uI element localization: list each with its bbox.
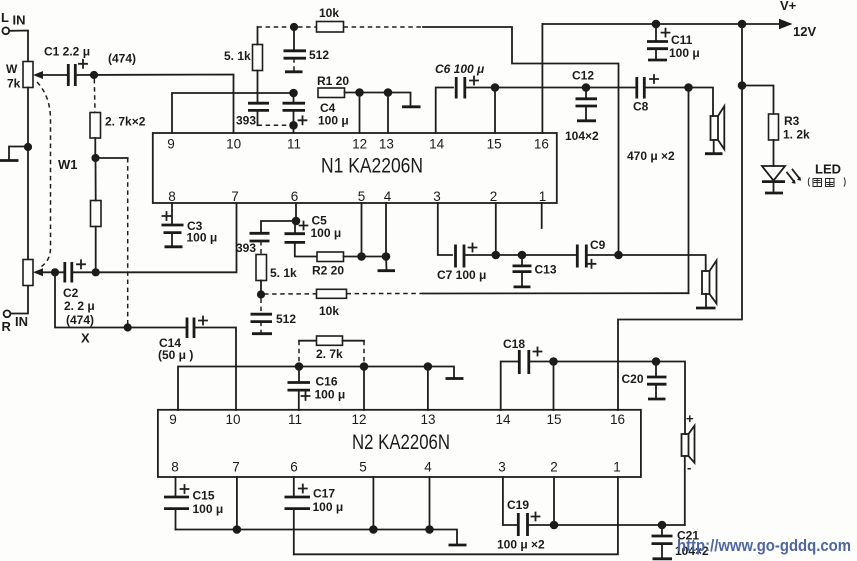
node ground tap bbox=[24, 143, 32, 151]
capacitor C1 2.2u bbox=[44, 45, 136, 87]
capacitor C5 100u bbox=[285, 214, 342, 257]
svg-text:5. 1k: 5. 1k bbox=[224, 49, 251, 63]
node pin 12 bbox=[355, 88, 364, 97]
svg-text:393: 393 bbox=[236, 241, 256, 255]
wire N1 pin 9 up and right (input bias net) bbox=[172, 93, 294, 133]
node C8 out bbox=[684, 83, 693, 92]
svg-text:LED: LED bbox=[815, 162, 841, 177]
capacitor C9 470u bbox=[577, 238, 605, 268]
svg-text:-: - bbox=[687, 460, 691, 475]
wire N2 pin 3 to C19 bbox=[503, 477, 517, 525]
capacitor C3 100u bbox=[162, 203, 218, 247]
svg-text:16: 16 bbox=[534, 137, 549, 152]
dashed C1 node to 2.7k bbox=[93, 79, 96, 113]
dashed 10k to solid feedback run bbox=[344, 26, 424, 28]
svg-text:C2: C2 bbox=[63, 286, 79, 300]
wire R IN to pot lower bbox=[10, 286, 28, 314]
potentiometer W (lower gang) bbox=[23, 260, 33, 286]
node C20 bbox=[652, 357, 661, 366]
svg-text:10k: 10k bbox=[319, 304, 339, 318]
svg-text:512: 512 bbox=[276, 312, 296, 326]
wire C7 to C9 bbox=[464, 254, 576, 256]
node pin 2 C19 bbox=[550, 521, 559, 530]
wire node right bbox=[96, 157, 128, 159]
svg-text:3: 3 bbox=[498, 460, 506, 475]
dashed 10k to solid run bbox=[347, 293, 424, 295]
svg-text:100 μ: 100 μ bbox=[315, 388, 346, 402]
svg-text:100 μ: 100 μ bbox=[193, 502, 224, 516]
dashed node to 10k lower bbox=[264, 293, 317, 295]
svg-text:1. 2k: 1. 2k bbox=[783, 128, 810, 142]
V+ rail bbox=[542, 23, 780, 25]
capacitor C2 2.2u bbox=[63, 260, 95, 327]
speaker C (N2 output) bbox=[682, 411, 695, 525]
wire X down and right to C14 bbox=[55, 272, 187, 327]
svg-text:100 μ ×2: 100 μ ×2 bbox=[497, 538, 545, 552]
node C2 out bbox=[92, 268, 100, 276]
ground (N1 input net) bbox=[402, 105, 421, 108]
ground N2 input net bbox=[446, 377, 464, 380]
svg-text:5: 5 bbox=[359, 460, 367, 475]
potentiometer W 7k (upper gang) bbox=[6, 62, 33, 91]
svg-text:8: 8 bbox=[171, 460, 179, 475]
node C9 out bbox=[614, 251, 623, 260]
svg-text:(474): (474) bbox=[108, 52, 136, 66]
resistor 2.7k x2 (upper) bbox=[90, 113, 146, 139]
speaker A (left channel) bbox=[705, 106, 724, 154]
capacitor C16 100u bbox=[288, 367, 346, 411]
svg-text:100 μ: 100 μ bbox=[187, 231, 218, 245]
svg-text:6: 6 bbox=[290, 460, 298, 475]
svg-text:IN: IN bbox=[13, 13, 26, 28]
capacitor C11 100u bbox=[647, 24, 700, 60]
node pin 7 rail bbox=[233, 525, 242, 534]
node after C1 bbox=[90, 71, 98, 79]
svg-text:C17: C17 bbox=[313, 487, 335, 501]
terminal L IN bbox=[1, 10, 26, 34]
svg-text:C19: C19 bbox=[507, 498, 529, 512]
wire N2 pin 14 to C18 bbox=[501, 362, 518, 411]
svg-text:C18: C18 bbox=[503, 337, 525, 351]
resistor 2.7k (N2) bbox=[299, 336, 364, 362]
svg-text:C8: C8 bbox=[633, 100, 649, 114]
LED (green) bbox=[762, 162, 845, 194]
speaker B (right channel of N1) bbox=[696, 261, 717, 309]
wire L IN to potentiometer W top bbox=[9, 31, 28, 62]
capacitor C13 bbox=[513, 255, 557, 287]
resistor 10k (upper feedback) bbox=[317, 6, 344, 32]
wire N1 pin 3 to C7 bbox=[438, 203, 452, 255]
wire N2 pin 15 riser bbox=[553, 362, 555, 411]
node pin 2 bbox=[492, 251, 501, 260]
svg-text:C11: C11 bbox=[671, 33, 693, 47]
node pin 13 bbox=[384, 88, 393, 97]
wire N2 pin 4 riser bbox=[429, 477, 431, 530]
svg-text:1: 1 bbox=[539, 189, 547, 204]
wire N2 bottom rail bbox=[176, 530, 458, 544]
node V+ branch bbox=[738, 20, 747, 29]
IC N1 KA2206N bbox=[153, 133, 557, 203]
capacitor C15 100u bbox=[164, 477, 223, 530]
wire 5.1k bottom lead to 393 bbox=[257, 71, 259, 103]
wire N1 pin 6 down bbox=[295, 203, 297, 221]
wire N2 pin 12 riser bbox=[363, 367, 365, 411]
wire V+ branch down to N2 pin 16 bbox=[618, 24, 742, 410]
svg-text:2. 7k×2: 2. 7k×2 bbox=[105, 115, 146, 129]
svg-text:N2 KA2206N: N2 KA2206N bbox=[352, 430, 450, 454]
wire feedback run to 10k (lower) bbox=[423, 292, 689, 294]
V+ arrowhead bbox=[779, 19, 793, 29]
capacitor C20 bbox=[622, 362, 667, 400]
wire pot W lower lead (between gangs) bbox=[27, 88, 29, 260]
node pin 6 bbox=[292, 217, 301, 226]
capacitor 393 (lower) bbox=[236, 233, 270, 255]
svg-text:2. 2 μ: 2. 2 μ bbox=[64, 299, 95, 313]
wire C9 to speaker B bbox=[586, 255, 705, 271]
node C21 bbox=[658, 521, 667, 530]
svg-text:V+: V+ bbox=[780, 0, 797, 13]
svg-text:5. 1k: 5. 1k bbox=[270, 266, 297, 280]
svg-text:512: 512 bbox=[309, 48, 329, 62]
node N2 pin 11 bbox=[295, 362, 304, 371]
IC N2 KA2206N bbox=[158, 410, 641, 477]
svg-text:6: 6 bbox=[291, 189, 299, 204]
capacitor C7 100u bbox=[437, 244, 486, 283]
wire N1 pin 14 to C6 bbox=[436, 88, 453, 134]
resistor 5.1k (lower) bbox=[256, 255, 297, 281]
wire wiper to C1 bbox=[42, 74, 68, 76]
wire C6 to C8 bbox=[465, 87, 636, 89]
svg-text:16: 16 bbox=[610, 412, 625, 427]
svg-text:7k: 7k bbox=[7, 77, 21, 91]
wire pin 5 riser bbox=[361, 203, 363, 257]
svg-text:2: 2 bbox=[490, 189, 498, 204]
svg-text:W: W bbox=[6, 62, 18, 76]
svg-text:13: 13 bbox=[420, 412, 435, 427]
resistor R1 20 bbox=[317, 74, 349, 98]
wire C19 to speaker C bottom bbox=[528, 524, 685, 526]
svg-text:15: 15 bbox=[546, 412, 561, 427]
capacitor C19 100u bbox=[497, 498, 545, 552]
node C11 bbox=[652, 20, 661, 29]
wire N2 pin 7 riser bbox=[236, 477, 238, 530]
capacitor 512 (upper) bbox=[284, 31, 330, 72]
node X wire / dashed junction bbox=[124, 323, 132, 331]
capacitor 393 (upper) bbox=[236, 103, 289, 127]
svg-text:C7 100 μ: C7 100 μ bbox=[437, 268, 486, 282]
wire pin 2 riser bbox=[495, 203, 497, 255]
svg-text:393: 393 bbox=[236, 114, 256, 128]
wire pin 12 riser bbox=[359, 93, 361, 134]
resistor 5.1k (upper) bbox=[224, 45, 263, 71]
svg-text:(50 μ ): (50 μ ) bbox=[158, 348, 193, 362]
wire C14 to N2 pin 10 bbox=[194, 328, 236, 411]
wire C1 to N1 pin 10 bbox=[75, 75, 233, 134]
wire feedback to C9 output node bbox=[423, 27, 619, 255]
svg-text:C1 2.2 μ: C1 2.2 μ bbox=[44, 45, 90, 59]
svg-text:4: 4 bbox=[384, 189, 392, 204]
node R3 branch bbox=[738, 81, 747, 90]
svg-text:(474): (474) bbox=[66, 313, 94, 327]
wire C17 bottom rail to N2 pin 1 bbox=[294, 477, 618, 554]
wire to R3 bbox=[742, 86, 774, 115]
svg-text:12: 12 bbox=[352, 137, 367, 152]
svg-text:2: 2 bbox=[550, 460, 558, 475]
node X tap bbox=[51, 268, 59, 276]
node top 10k net bbox=[290, 23, 298, 31]
svg-text:R: R bbox=[2, 319, 12, 334]
svg-text:15: 15 bbox=[487, 137, 502, 152]
svg-text:10: 10 bbox=[226, 137, 241, 152]
svg-text:11: 11 bbox=[288, 412, 302, 427]
svg-text:C16: C16 bbox=[316, 375, 338, 389]
wire pin 13 riser bbox=[387, 93, 389, 134]
wire N2 pin 5 riser bbox=[372, 477, 374, 530]
resistor R2 20 bbox=[312, 252, 344, 278]
svg-text:4: 4 bbox=[424, 460, 432, 475]
svg-text:100 μ: 100 μ bbox=[669, 46, 700, 60]
svg-text:10k: 10k bbox=[319, 6, 339, 20]
wire 5.1k to node bbox=[260, 281, 262, 292]
wire N2 pin 2 riser bbox=[553, 477, 555, 525]
node C6 out / pin 15 bbox=[491, 83, 500, 92]
node pin 5 rail bbox=[369, 525, 378, 534]
node N2 pin 12 bbox=[360, 362, 369, 371]
wire R1 to ground bbox=[345, 93, 411, 106]
terminal R IN bbox=[2, 310, 29, 334]
svg-text:14: 14 bbox=[429, 137, 445, 152]
capacitor C17 100u bbox=[285, 477, 344, 554]
svg-text:C20: C20 bbox=[622, 372, 644, 386]
svg-text:R2 20: R2 20 bbox=[312, 264, 344, 278]
node N2 pin 13 bbox=[424, 362, 433, 371]
svg-text:C15: C15 bbox=[193, 489, 215, 503]
svg-text:104×2: 104×2 bbox=[565, 129, 599, 143]
svg-text:C9: C9 bbox=[590, 238, 606, 252]
svg-text:X: X bbox=[81, 331, 90, 346]
svg-text:12V: 12V bbox=[793, 24, 816, 39]
wiper arrow of W lower bbox=[33, 268, 43, 276]
svg-text:100 μ: 100 μ bbox=[313, 500, 344, 514]
svg-text:7: 7 bbox=[231, 189, 239, 204]
ground (input common) bbox=[9, 147, 28, 160]
capacitor C6 100u bbox=[435, 62, 485, 99]
svg-text:13: 13 bbox=[379, 137, 394, 152]
node C12 top bbox=[582, 83, 591, 92]
wire node to lower 2.7k bbox=[95, 158, 97, 201]
svg-text:9: 9 bbox=[167, 137, 175, 152]
svg-text:+: + bbox=[686, 411, 694, 426]
capacitor C18 bbox=[503, 337, 542, 374]
node C4 bottom / pin 11 bbox=[289, 121, 298, 130]
node C18 out / pin 15 bbox=[549, 357, 558, 366]
capacitor 512 (lower) bbox=[251, 299, 297, 334]
svg-text:10: 10 bbox=[225, 412, 240, 427]
svg-text:100 μ: 100 μ bbox=[311, 226, 342, 240]
wire N2 pin 9 bias net bbox=[178, 367, 454, 411]
ground below pin 4 bbox=[385, 257, 388, 270]
capacitor C21 104 bbox=[652, 525, 710, 559]
svg-text:C13: C13 bbox=[535, 263, 557, 277]
wire lower 2.7k to C2 out node bbox=[95, 227, 97, 273]
wire pin 4 riser bbox=[385, 203, 387, 257]
node lower feedback bbox=[257, 290, 265, 298]
svg-text:1: 1 bbox=[613, 460, 621, 475]
wire pin 11 riser bbox=[293, 125, 295, 133]
node pin 5 bbox=[357, 252, 366, 261]
resistor R3 1.2k bbox=[769, 114, 811, 142]
node N1 pin 11 top (R1 left) bbox=[289, 89, 298, 98]
wire wiper to C2 bbox=[42, 271, 65, 273]
dashed gang coupling W1 bbox=[37, 82, 51, 268]
svg-text:C6 100 μ: C6 100 μ bbox=[435, 62, 485, 76]
svg-text:470 μ ×2: 470 μ ×2 bbox=[627, 149, 675, 163]
capacitor C12 104 bbox=[565, 69, 599, 144]
node pin 4 rail bbox=[425, 525, 434, 534]
wire N1 pin 1 stub bbox=[541, 203, 543, 228]
svg-text:L: L bbox=[1, 10, 9, 25]
ground N2 bottom rail bbox=[449, 544, 467, 547]
node 2.7k junction bbox=[91, 154, 99, 162]
svg-text:7: 7 bbox=[232, 460, 240, 475]
svg-text:14: 14 bbox=[495, 412, 511, 427]
wire 2.7k to node bbox=[94, 138, 96, 158]
dashed 393 to 5.1k lower bbox=[260, 241, 262, 255]
dashed down to X wire bbox=[127, 158, 129, 328]
svg-text:W1: W1 bbox=[58, 157, 78, 172]
svg-text:12: 12 bbox=[351, 412, 366, 427]
svg-text:8: 8 bbox=[168, 189, 176, 204]
wire pin 6 node to 393 lower bbox=[261, 221, 296, 232]
dashed 5.1k to 10k feedback (upper) bbox=[258, 26, 317, 28]
capacitor C14 50u bbox=[158, 317, 207, 363]
capacitor C8 470u bbox=[627, 75, 675, 163]
wire C8 to speaker A bbox=[644, 88, 713, 117]
svg-text:C12: C12 bbox=[572, 69, 594, 83]
wire 5.1k top lead bbox=[257, 27, 259, 45]
svg-text:2. 7k: 2. 7k bbox=[316, 347, 343, 361]
svg-text:N1 KA2206N: N1 KA2206N bbox=[321, 154, 423, 178]
svg-text:9: 9 bbox=[169, 412, 177, 427]
svg-text:11: 11 bbox=[287, 137, 301, 152]
svg-text:3: 3 bbox=[433, 189, 441, 204]
capacitor C4 100u bbox=[283, 93, 349, 128]
svg-text:R1 20: R1 20 bbox=[317, 74, 349, 88]
wiper arrow of W upper bbox=[33, 71, 43, 79]
wire C18 to speaker C top bbox=[529, 362, 685, 435]
wire N1 pin 16 riser bbox=[541, 24, 543, 133]
wire pin 15 riser bbox=[494, 88, 496, 134]
svg-text:http://www.go-gddq.com: http://www.go-gddq.com bbox=[677, 536, 851, 555]
svg-text:IN: IN bbox=[15, 314, 28, 329]
svg-text:100 μ: 100 μ bbox=[318, 114, 349, 128]
node pin 4 bbox=[382, 252, 391, 261]
resistor 10k (lower feedback) bbox=[317, 289, 347, 318]
wire C8 node down to feedback bbox=[688, 88, 690, 294]
svg-text:5: 5 bbox=[358, 189, 366, 204]
wire R3 to LED bbox=[773, 140, 775, 166]
svg-text:R3: R3 bbox=[784, 114, 800, 128]
node C13 bbox=[518, 251, 527, 260]
wire C2 to N1 pin 7 bbox=[72, 203, 237, 272]
wire N2 pin 13 riser bbox=[427, 367, 429, 411]
wire R2 to pins 5,4 bbox=[344, 256, 387, 258]
resistor 2.7k (lower of pair) bbox=[91, 201, 102, 227]
